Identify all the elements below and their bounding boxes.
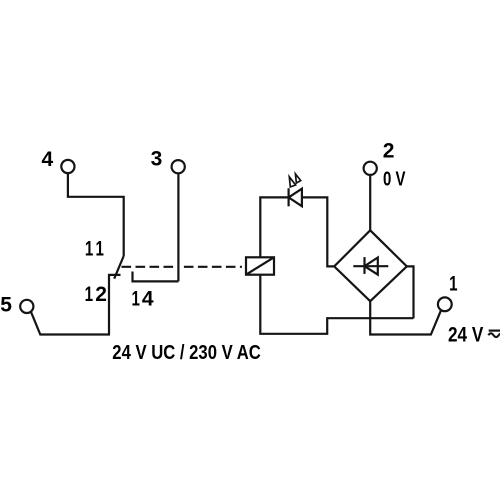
label 12 xyxy=(85,282,107,307)
wire bridge bottom corner to terminal 1 xyxy=(370,301,441,334)
mechanical link dash-dot line xyxy=(122,266,247,268)
LED D1 xyxy=(289,188,302,206)
terminal 5 xyxy=(0,294,33,317)
svg-text:24 V UC / 230 V AC: 24 V UC / 230 V AC xyxy=(112,342,260,364)
svg-text:1: 1 xyxy=(95,236,103,260)
wire terminal 5 to contact 12 xyxy=(31,312,110,335)
svg-text:2: 2 xyxy=(95,283,107,306)
wire coil top to LED xyxy=(260,197,288,257)
bridge diode symbol xyxy=(353,257,388,275)
relay coil K1 xyxy=(246,257,274,274)
svg-text:0 V: 0 V xyxy=(383,169,406,191)
terminal 4 xyxy=(42,148,75,173)
svg-text:1: 1 xyxy=(131,286,139,310)
svg-text:2: 2 xyxy=(383,139,395,162)
AC/DC symbol xyxy=(488,331,500,338)
svg-text:4: 4 xyxy=(142,288,154,311)
label 0 V xyxy=(383,169,406,191)
svg-text:1: 1 xyxy=(85,236,93,260)
svg-text:3: 3 xyxy=(151,148,163,171)
wire LED to bridge left corner xyxy=(302,197,334,266)
svg-text:5: 5 xyxy=(0,294,12,317)
terminal 3 xyxy=(151,148,185,174)
terminal 1 xyxy=(438,271,458,311)
label 14 xyxy=(131,286,153,311)
wire terminal 2 to bridge top corner xyxy=(369,175,371,230)
fixed contact 14 xyxy=(133,272,179,282)
label 24 V UC / 230 V AC xyxy=(112,342,260,364)
svg-text:1: 1 xyxy=(449,271,457,295)
wire bridge right corner down xyxy=(407,266,414,318)
terminal 2 xyxy=(364,139,395,175)
svg-text:1: 1 xyxy=(85,282,93,306)
wire terminal 3 to contact 14 xyxy=(177,174,179,282)
wire terminal 4 to contact 11 pivot xyxy=(68,173,124,256)
label 24 V AC/DC xyxy=(448,324,483,347)
label 11 xyxy=(85,236,104,260)
LED light arrows xyxy=(289,174,300,187)
bridge rectifier diamond xyxy=(334,230,407,301)
relay contact blade 11 xyxy=(114,256,124,279)
svg-text:4: 4 xyxy=(42,148,54,171)
svg-text:24 V: 24 V xyxy=(448,324,483,347)
fixed contact 12 xyxy=(109,275,121,335)
wire coil bottom to bridge right xyxy=(260,275,413,334)
